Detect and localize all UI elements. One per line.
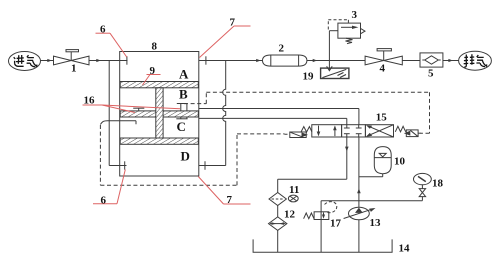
svg-text:6: 6: [100, 24, 106, 36]
svg-text:11: 11: [289, 184, 299, 196]
supply line down left: [108, 61, 110, 166]
wire inlet to valve 1: [41, 60, 54, 62]
svg-text:13: 13: [370, 217, 382, 229]
piston bar A/B: [120, 82, 198, 88]
leader 6 top: [96, 33, 127, 57]
wire cylinder port to valve 15 P-line: [199, 109, 359, 125]
pilot dashed from B chamber right: [184, 92, 430, 133]
wire filter 11 to 12: [277, 206, 279, 217]
svg-text:2: 2: [279, 43, 285, 55]
svg-text:19: 19: [303, 71, 315, 83]
piston bar middle: [120, 111, 198, 117]
svg-text:10: 10: [394, 156, 406, 168]
svg-text:12: 12: [284, 209, 296, 221]
svg-text:D: D: [181, 149, 190, 164]
svg-text:14: 14: [399, 243, 411, 255]
pump 13: [344, 207, 376, 220]
piston bar C/D: [120, 138, 198, 144]
red leaders: [83, 26, 251, 204]
flow arrow: [448, 59, 453, 62]
wire filter 12 to tank: [277, 230, 279, 252]
seal right 16: [176, 104, 187, 119]
filter 12: [269, 217, 287, 231]
svg-text:5: 5: [428, 68, 434, 80]
filter 11: [269, 193, 298, 206]
flow arrow: [47, 59, 52, 62]
valve 15 centre blocked ports: [344, 125, 362, 137]
transducer 19 drop wire: [327, 61, 333, 71]
svg-text:9: 9: [150, 65, 156, 77]
inlet text 进气: [14, 55, 37, 67]
wire valve 4 to filter 5: [402, 60, 420, 62]
bottom-left port: [109, 161, 126, 169]
valve 15 left dashed stub: [285, 133, 290, 135]
port tick top-left: [126, 56, 128, 64]
pilot dashed of relief 3: [328, 20, 348, 30]
svg-text:A: A: [179, 67, 189, 82]
piston rod: [156, 88, 163, 138]
pilot dashed left enclosure: [100, 125, 284, 185]
svg-text:7: 7: [227, 194, 233, 206]
svg-text:3: 3: [352, 9, 358, 21]
valve 15 right spring: [395, 126, 405, 132]
transducer 19: [321, 68, 349, 78]
svg-text:B: B: [179, 87, 188, 102]
tank 14: [253, 239, 392, 252]
svg-text:17: 17: [330, 218, 342, 230]
bottom-right port: [199, 161, 226, 169]
accumulator 10: [359, 147, 391, 177]
pump pressure line: [357, 137, 361, 252]
svg-text:18: 18: [432, 178, 444, 190]
wire filter 5 to outlet: [443, 60, 459, 62]
valve 15 left solenoid: [290, 132, 308, 138]
leader 7 bottom: [198, 177, 250, 205]
outlet text 排气: [464, 54, 487, 67]
directional valve 15 body: [312, 125, 394, 137]
svg-text:6: 6: [101, 195, 107, 207]
leader 6 bottom: [93, 170, 125, 204]
muffler 2: [263, 55, 307, 66]
relief valve 17: [304, 201, 359, 253]
wire cylinder port to valve 15 A-line: [199, 118, 347, 124]
node inlet 进气: [9, 52, 41, 71]
svg-text:15: 15: [376, 111, 388, 123]
flow arrow: [96, 59, 101, 62]
valve 1: [54, 50, 90, 65]
flow arrow: [256, 59, 261, 62]
valve 15 left spring: [301, 127, 312, 132]
leader 7 top: [200, 26, 251, 58]
svg-text:8: 8: [152, 41, 158, 53]
svg-text:16: 16: [84, 95, 96, 107]
wire muffler to valve 4: [307, 60, 365, 62]
svg-text:1: 1: [71, 63, 77, 75]
cylinder body 8: [120, 52, 199, 177]
leader 16: [83, 105, 181, 113]
red-pointed labels: [84, 17, 236, 207]
node outlet 排气: [459, 51, 492, 70]
valve 15 crossed position: [366, 125, 394, 137]
gauge 18: [359, 173, 431, 200]
wire valve 1 to cylinder: [89, 60, 128, 62]
valve 4: [365, 49, 402, 65]
svg-text:C: C: [177, 119, 186, 134]
svg-text:7: 7: [230, 17, 236, 29]
top-right port: [199, 56, 263, 64]
right vertical with hops: [223, 61, 226, 166]
svg-text:4: 4: [380, 63, 386, 75]
flow arrow: [313, 59, 318, 62]
valve 15 position-1 arrows: [317, 126, 337, 137]
leader 9: [143, 75, 161, 86]
seal left 16: [133, 108, 144, 111]
filter 5: [420, 53, 443, 67]
relief valve 3: [338, 23, 365, 43]
riser to relief 3 and transducer 19: [329, 31, 338, 61]
valve 15 return drop to filters: [278, 137, 349, 193]
pilot line from C chamber left: [100, 121, 136, 125]
valve 15 right solenoid: [404, 130, 421, 137]
